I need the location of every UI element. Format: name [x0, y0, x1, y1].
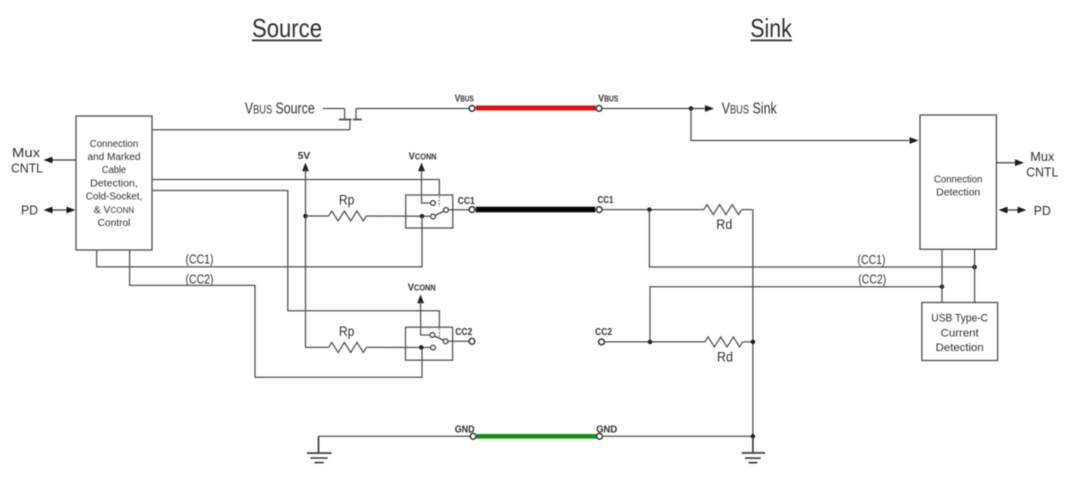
terminal CC2 sink plug — [599, 339, 605, 345]
arrow VBUS Sink — [691, 105, 714, 112]
svg-text:Connection: Connection — [90, 139, 138, 150]
svg-text:Cold-Socket,: Cold-Socket, — [86, 192, 142, 203]
arrow into Connection Detection — [910, 137, 919, 144]
wire VBUS sink plug to junction — [602, 108, 691, 110]
title Sink — [750, 13, 792, 43]
cable VBUS wire (red) — [476, 106, 596, 111]
switch S1 blade — [435, 211, 444, 215]
node 5V to Rp1 junction — [303, 214, 308, 219]
svg-text:Source: Source — [252, 13, 322, 43]
node CC1 sink junction — [647, 207, 652, 212]
svg-text:(CC1): (CC1) — [186, 253, 214, 267]
svg-text:& VCONN: & VCONN — [94, 205, 135, 216]
terminal CC1 sink plug — [596, 207, 602, 213]
svg-text:(CC2): (CC2) — [858, 273, 886, 287]
svg-text:(CC2): (CC2) — [186, 273, 214, 287]
wire Rd1 to ground rail vertical — [752, 210, 754, 437]
wire VCONN 1 feed — [422, 169, 431, 203]
wire CC1 sink to Rd1 — [602, 209, 704, 211]
svg-text:CNTL: CNTL — [11, 161, 43, 176]
cable CC1 wire (black) — [476, 207, 596, 213]
label Mux CNTL (left) — [11, 145, 43, 176]
resistor Rp1 — [306, 211, 431, 221]
power arrow VCONN 1 — [418, 163, 425, 172]
node VBUS sink junction — [689, 106, 694, 111]
power arrow VCONN 2 — [417, 295, 424, 304]
switch S2 blade — [435, 336, 444, 340]
terminal CC1 source plug — [469, 207, 475, 213]
svg-text:Sink: Sink — [750, 13, 792, 43]
node (CC1) to U2 stub — [972, 265, 977, 270]
wire VBUS source to plug terminal — [356, 108, 470, 110]
cable GND wire (green) — [476, 434, 596, 439]
wire S2 output to CC2 plug — [448, 340, 469, 342]
transistor Q1 VBUS pass FET — [323, 109, 362, 130]
wire VBUS source drain to block U1 — [152, 129, 350, 131]
svg-text:Cable: Cable — [102, 165, 127, 176]
arrow Mux CNTL left output — [44, 157, 76, 164]
switch S2 pole contact — [443, 339, 448, 344]
svg-text:USB Type-C: USB Type-C — [931, 313, 988, 325]
node Rp1 junction — [420, 214, 425, 219]
node Rd2 to ground rail junction — [751, 340, 756, 345]
svg-text:Connection: Connection — [934, 175, 982, 186]
wire CC1 sink riser to (CC1) line — [649, 210, 974, 267]
svg-text:GND: GND — [596, 424, 617, 435]
arrow PD right bidirectional — [999, 207, 1027, 214]
node CC2 sink junction — [648, 340, 653, 345]
label Mux CNTL (right) — [1026, 149, 1058, 180]
wire S1 output to CC1 plug — [448, 209, 469, 211]
svg-text:Control: Control — [98, 218, 131, 229]
svg-text:CNTL: CNTL — [1026, 165, 1058, 180]
wire CC2 sink to Rd2 — [604, 341, 705, 343]
resistor Rp2 — [306, 342, 431, 352]
svg-text:VBUS Source: VBUS Source — [245, 100, 315, 117]
terminal GND sink plug — [597, 433, 603, 439]
terminal GND source plug — [470, 433, 476, 439]
svg-text:(CC1): (CC1) — [858, 253, 886, 267]
switch S1 lower throw contact (Rp) — [431, 214, 436, 219]
ground symbol right — [742, 436, 766, 462]
terminal VBUS sink plug — [596, 106, 602, 112]
svg-text:CC1: CC1 — [598, 195, 614, 206]
wire U2 stub 1 to U3 — [941, 249, 943, 302]
svg-text:VCONN: VCONN — [408, 283, 436, 294]
block U3 USB Type-C Current Detection — [922, 303, 998, 361]
node GND right junction — [751, 434, 756, 439]
wire VBUS junction down and right to Connection Detection — [691, 109, 909, 141]
wire control CC2 switch from U1 — [152, 191, 439, 329]
svg-text:VBUS Sink: VBUS Sink — [722, 100, 777, 117]
svg-text:Rd: Rd — [716, 217, 732, 232]
switch S2 upper throw contact (VCONN) — [430, 333, 435, 338]
node (CC2) to U2 stub — [940, 284, 945, 289]
ground symbol left — [307, 436, 332, 462]
svg-text:Rp: Rp — [339, 324, 355, 339]
wire CC2 sink riser to (CC2) line — [650, 287, 942, 342]
switch S2 lower throw contact (Rp) — [431, 345, 436, 350]
svg-text:VCONN: VCONN — [409, 152, 437, 163]
wire 5V rail vertical — [305, 169, 307, 347]
arrow Mux CNTL right output — [996, 159, 1024, 166]
switch S1 linkage (dotted) — [438, 197, 440, 208]
title Source — [252, 13, 322, 43]
terminal VBUS source plug — [469, 106, 475, 112]
block U1 Connection and Marked Cable Detection, Cold-Socket, & VCONN Control — [76, 116, 152, 250]
resistor Rd1 — [704, 205, 753, 215]
svg-text:and Marked: and Marked — [88, 152, 141, 163]
node Rp2 junction — [419, 345, 424, 350]
svg-text:Detection: Detection — [936, 342, 984, 354]
switch S2 linkage (dotted) — [438, 329, 440, 339]
svg-text:PD: PD — [21, 203, 38, 218]
resistor Rd2 — [705, 337, 753, 347]
svg-text:Rp: Rp — [339, 193, 355, 208]
wire CC1 feedback left: U1 stub to S1 pole — [97, 216, 422, 267]
terminal CC2 source plug — [469, 338, 475, 344]
svg-text:Current: Current — [941, 327, 979, 339]
arrow PD left bidirectional — [44, 207, 76, 214]
switch S2 box — [406, 327, 453, 360]
svg-text:5V: 5V — [298, 150, 311, 162]
wire VCONN 2 feed — [421, 301, 430, 335]
svg-text:Rd: Rd — [717, 350, 733, 365]
svg-text:Mux: Mux — [12, 145, 41, 160]
svg-text:Mux: Mux — [1030, 149, 1054, 164]
svg-text:CC2: CC2 — [595, 327, 612, 338]
svg-text:CC1: CC1 — [458, 196, 475, 207]
switch S1 box — [406, 195, 453, 228]
switch S1 pole contact — [444, 208, 449, 213]
wire GND right — [602, 435, 753, 437]
wire U2 stub 2 to U3 — [974, 249, 976, 302]
svg-text:VBUS: VBUS — [598, 94, 618, 105]
svg-text:PD: PD — [1034, 203, 1051, 218]
svg-text:Detection: Detection — [936, 188, 980, 199]
wire CC2 feedback left: U1 stub to S2 pole — [130, 250, 422, 377]
switch S1 upper throw contact (VCONN) — [431, 201, 436, 206]
svg-text:VBUS: VBUS — [455, 94, 474, 105]
power arrow 5V — [302, 163, 309, 172]
wire control CC1 switch from U1 — [152, 180, 439, 196]
wire GND left — [319, 435, 471, 437]
block U2 Connection Detection — [920, 115, 996, 249]
svg-text:Detection,: Detection, — [90, 178, 138, 189]
svg-text:CC2: CC2 — [455, 327, 472, 338]
